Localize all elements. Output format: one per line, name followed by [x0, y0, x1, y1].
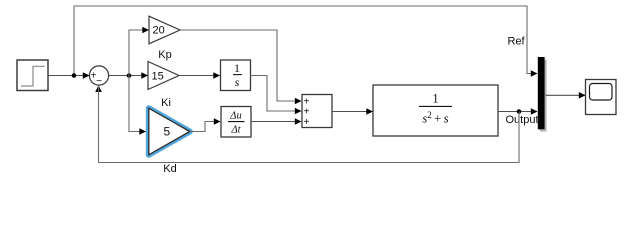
arrowhead into mux bottom — [531, 108, 538, 115]
svg-text:20: 20 — [153, 25, 165, 37]
wire: plant output to mux bottom input — [498, 111, 537, 113]
wire: gain Ki output to integrator — [179, 75, 220, 77]
integrator block 1/s — [221, 60, 251, 91]
svg-text:Δu: Δu — [229, 111, 241, 122]
arrowhead into mux top — [531, 70, 538, 77]
step glyph — [21, 66, 45, 86]
sum block (circle) — [89, 66, 108, 85]
gain Kd (5) triangle — [149, 108, 190, 155]
arrowhead into scope — [579, 92, 586, 99]
svg-text:1: 1 — [234, 61, 240, 75]
svg-text:15: 15 — [152, 70, 164, 82]
svg-text:s: s — [235, 75, 240, 89]
arrowhead into middle sum bottom — [295, 118, 302, 125]
svg-text:1: 1 — [432, 92, 438, 106]
plant transfer function block 1/(s^2+s) — [373, 85, 498, 136]
gain Kp (20) triangle — [149, 16, 180, 44]
arrowhead into integrator — [213, 72, 220, 79]
wire: gain Kp output to middle sum top input — [180, 30, 301, 101]
scope block — [586, 80, 617, 115]
arrowhead into plant — [366, 108, 373, 115]
wire: branch up to gain Kp — [129, 30, 149, 76]
arrowhead into middle sum mid — [295, 108, 302, 115]
arrowhead into sum — [83, 72, 90, 79]
step block — [17, 60, 48, 91]
wire: integrator output to middle sum mid input — [251, 76, 302, 112]
wire: branch down to gain Kd — [129, 76, 146, 132]
wire: feedback loop from output junction to sum bottom — [99, 86, 520, 163]
wire: middle sum output to plant — [332, 111, 373, 113]
wire: mux output to scope — [546, 94, 586, 96]
arrowhead into gain Ki — [141, 72, 148, 79]
wire: sum output to branch junction and gain Ki — [109, 75, 148, 77]
wire: step output to sum — [48, 75, 89, 77]
svg-text:Ki: Ki — [161, 97, 171, 109]
node: branch junction — [127, 73, 132, 78]
arrowhead into middle sum top — [295, 98, 302, 105]
middle sum block (rectangle, + + +) — [302, 95, 332, 128]
svg-text:Kp: Kp — [158, 49, 171, 61]
svg-text:Output: Output — [505, 114, 538, 126]
svg-text:−: − — [96, 76, 102, 87]
arrowhead into gain Kd — [139, 128, 146, 135]
svg-text:Kd: Kd — [163, 163, 176, 175]
node: junction after step — [72, 73, 77, 78]
svg-text:5: 5 — [164, 125, 171, 139]
svg-text:Ref: Ref — [507, 36, 525, 48]
svg-text:+: + — [304, 106, 310, 117]
mux block shadow — [540, 60, 547, 132]
mux block (black bar) — [538, 57, 545, 129]
node: output junction — [517, 109, 522, 114]
gain Ki (15) triangle — [148, 62, 179, 90]
svg-text:s2 + s: s2 + s — [422, 110, 448, 126]
wire: gain Kd output to derivative block — [190, 122, 220, 132]
derivative block du/dt — [221, 107, 251, 138]
svg-text:+: + — [304, 117, 310, 128]
wire: derivative output to middle sum bottom input — [251, 121, 301, 123]
gain Kd (5) selected triangle: blue halo — [149, 108, 190, 155]
arrowhead into gain Kp — [142, 27, 149, 34]
wire: Ref top loop from step junction to mux top input — [74, 6, 536, 76]
svg-text:Δt: Δt — [230, 125, 241, 136]
arrowhead feedback into sum bottom — [95, 85, 102, 92]
arrowhead into derivative block — [214, 118, 221, 125]
